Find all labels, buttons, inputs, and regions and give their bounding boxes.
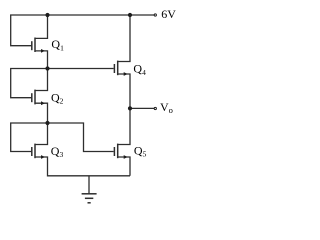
svg-text:Vo: Vo [160,100,173,115]
svg-text:Q5: Q5 [134,143,147,158]
svg-text:Q1: Q1 [51,37,64,52]
svg-text:Q3: Q3 [51,144,64,159]
svg-text:Q4: Q4 [133,61,146,76]
svg-text:Q2: Q2 [51,90,64,105]
svg-text:6V: 6V [161,7,176,21]
